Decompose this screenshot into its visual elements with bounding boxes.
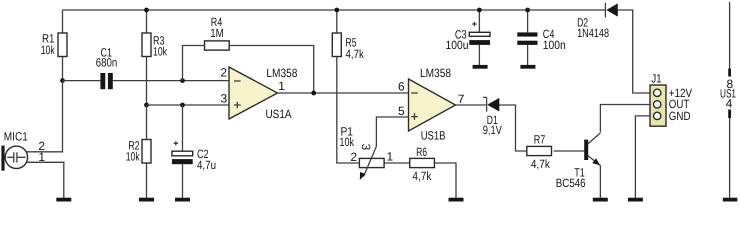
svg-text:100n: 100n xyxy=(543,38,566,52)
wire US1 pin 8 stub xyxy=(728,2,731,77)
wire R4 left leg xyxy=(183,46,205,81)
label R4 xyxy=(210,15,224,40)
junction R4 right / output net xyxy=(311,91,316,96)
junction C4 / +12V rail xyxy=(525,8,530,13)
wire R5 top xyxy=(336,10,338,33)
svg-text:R6: R6 xyxy=(416,145,427,159)
svg-text:J1: J1 xyxy=(651,72,662,86)
svg-text:1: 1 xyxy=(278,79,285,93)
label C1 xyxy=(96,45,118,69)
svg-text:4,7u: 4,7u xyxy=(197,158,216,172)
label D1 xyxy=(483,113,502,137)
svg-text:1M: 1M xyxy=(210,26,224,40)
svg-text:4,7k: 4,7k xyxy=(346,47,365,61)
junction C2 / pin 3 net xyxy=(180,103,185,108)
ground T1 xyxy=(593,198,608,202)
wire US1B pin 5 to P1 wiper xyxy=(376,117,408,146)
wire US1 pin 4 to ground xyxy=(728,110,731,198)
svg-text:US1A: US1A xyxy=(266,107,292,121)
ground C2 xyxy=(175,198,190,202)
ground MIC1 xyxy=(56,198,71,202)
wire C3 bottom to ground xyxy=(478,45,480,66)
wire R1 bottom to node A xyxy=(62,57,64,81)
svg-text:100u: 100u xyxy=(446,38,469,52)
label R5 xyxy=(346,35,365,61)
label R1 xyxy=(41,32,56,57)
label R6 xyxy=(412,145,432,183)
svg-text:3: 3 xyxy=(359,144,373,151)
svg-text:4,7k: 4,7k xyxy=(412,169,432,183)
junction R4 left / pin 2 net xyxy=(180,78,185,83)
svg-text:1: 1 xyxy=(38,150,45,164)
wire US1B output to D1 cathode xyxy=(454,104,486,106)
ground J1 xyxy=(628,198,643,202)
node B junction R3/R2/pin3 xyxy=(144,103,149,108)
junction C3 / +12V rail xyxy=(477,8,482,13)
junction R5 / +12V rail xyxy=(334,8,339,13)
label R3 xyxy=(153,34,168,59)
wire MIC1 pin 1 to ground xyxy=(27,162,64,198)
microphone MIC1 xyxy=(1,146,27,171)
label C2 xyxy=(197,147,216,172)
wire R5 bottom to P1 pin 2 xyxy=(337,56,360,164)
svg-text:10k: 10k xyxy=(41,43,56,57)
label R2 xyxy=(126,139,141,164)
wire R3 top xyxy=(146,10,148,33)
svg-text:US1B: US1B xyxy=(421,129,446,143)
resistor R4 xyxy=(205,41,230,50)
op-amp US1B xyxy=(409,79,456,131)
svg-text:1N4148: 1N4148 xyxy=(577,26,609,40)
wire R4 right leg xyxy=(229,46,314,94)
ground C4 xyxy=(520,65,535,69)
potentiometer P1 xyxy=(359,146,384,180)
resistor R7 xyxy=(527,146,552,155)
wire C4 top xyxy=(527,10,529,32)
wire C2 top xyxy=(182,105,184,151)
label R7 xyxy=(531,132,551,171)
svg-text:1: 1 xyxy=(387,149,394,163)
wire P1 pin 1 to R6 xyxy=(384,162,410,164)
svg-text:6: 6 xyxy=(398,80,405,94)
wire US1A output to US1B pin 6 xyxy=(278,92,409,94)
svg-text:4: 4 xyxy=(726,96,733,110)
capacitor C2 xyxy=(172,141,193,164)
svg-text:4,7k: 4,7k xyxy=(531,157,551,171)
connector J1 xyxy=(650,85,666,126)
label P1 xyxy=(340,124,355,149)
wire T1 collector to J1 pin 2 xyxy=(600,105,654,133)
svg-text:MIC1: MIC1 xyxy=(4,129,28,143)
wire node B to US1A pin 3 xyxy=(147,104,230,106)
wire node B to R2 top xyxy=(146,105,148,140)
wire T1 emitter to ground xyxy=(599,166,601,199)
resistor R6 xyxy=(410,158,435,167)
wire D2 anode to J1 pin 1 xyxy=(618,10,654,93)
svg-text:LM358: LM358 xyxy=(266,66,297,80)
junction R3 / +12V rail xyxy=(144,8,149,13)
wire C2 bottom to ground xyxy=(182,164,184,198)
svg-text:R7: R7 xyxy=(534,132,546,146)
svg-text:2: 2 xyxy=(220,66,227,80)
wire R2 bottom to ground xyxy=(146,163,148,198)
svg-text:10k: 10k xyxy=(153,45,168,59)
svg-text:10k: 10k xyxy=(340,135,355,149)
label C4 xyxy=(543,27,566,52)
label D2 xyxy=(577,15,609,40)
label T1 xyxy=(556,165,586,190)
svg-text:LM358: LM358 xyxy=(420,66,451,80)
wire node A to MIC1 pin 2 xyxy=(26,81,63,152)
svg-text:BC546: BC546 xyxy=(556,176,586,190)
ground R6 xyxy=(449,198,464,202)
resistor R2 xyxy=(142,140,151,164)
resistor R3 xyxy=(142,33,151,57)
ground C3 xyxy=(473,65,488,69)
ground US1 xyxy=(723,198,738,202)
svg-text:680n: 680n xyxy=(96,56,118,70)
wire J1 pin 3 to ground xyxy=(635,116,654,198)
resistor R5 xyxy=(332,33,341,57)
wire D1 anode to R7 left xyxy=(499,105,527,151)
svg-text:3: 3 xyxy=(221,91,228,105)
node A junction C1/R1 xyxy=(60,78,65,83)
wire R3 bottom to node B xyxy=(146,57,148,106)
wire C3 top xyxy=(478,10,480,32)
capacitor C4 xyxy=(517,32,537,45)
capacitor C3 xyxy=(469,22,490,45)
wire R6 right to ground xyxy=(434,163,457,198)
svg-text:2: 2 xyxy=(350,150,357,164)
transistor T1 BC546 xyxy=(584,133,600,166)
diode D2 1N4148 xyxy=(605,3,617,18)
wire R7 right to T1 base xyxy=(554,150,585,152)
wire R1 top xyxy=(62,10,64,33)
svg-text:GND: GND xyxy=(669,109,691,123)
svg-text:5: 5 xyxy=(398,104,405,118)
wire C1 right to US1A pin 2 xyxy=(113,80,229,82)
resistor R1 xyxy=(58,33,67,57)
wire +12V top rail xyxy=(63,9,605,11)
capacitor C1 xyxy=(100,73,112,89)
wire node A to C1 left xyxy=(63,80,101,82)
svg-text:9,1V: 9,1V xyxy=(483,123,502,137)
wire C4 bottom to ground xyxy=(527,45,529,65)
diode D1 zener 9.1V xyxy=(483,97,499,111)
svg-text:7: 7 xyxy=(458,92,465,106)
op-amp US1A xyxy=(229,67,278,119)
label C3 xyxy=(446,28,469,52)
svg-text:10k: 10k xyxy=(126,150,141,164)
ground R2 xyxy=(139,198,154,202)
